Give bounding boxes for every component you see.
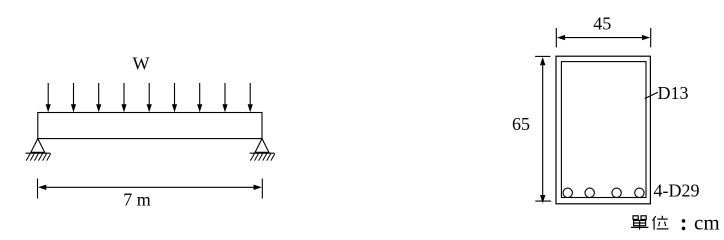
section outer rectangle: [556, 56, 650, 204]
stirrup inner rectangle: [561, 62, 646, 198]
span dimension left extension tick: [37, 179, 39, 199]
width dimension right extension tick: [650, 28, 652, 47]
svg-text:D13: D13: [658, 83, 689, 103]
distributed load arrow 8: [222, 83, 227, 112]
unit label CJK glyph 位: [653, 216, 669, 230]
distributed load arrow 6: [172, 83, 177, 112]
distributed load arrow 2: [71, 83, 76, 112]
rebar circle 4: [635, 188, 644, 197]
height dimension line with arrowheads: [540, 57, 545, 203]
svg-text:45: 45: [593, 14, 611, 34]
left support ground line: [26, 152, 51, 154]
left pin support triangle: [31, 139, 45, 153]
right support ground line: [250, 152, 275, 154]
width dimension left extension tick: [555, 28, 557, 47]
left support hatching: [26, 154, 51, 161]
height dimension bottom extension tick: [535, 200, 551, 202]
right pin support triangle: [255, 139, 269, 153]
distributed load arrow 4: [121, 83, 126, 112]
unit label full-width colon: [682, 219, 686, 230]
svg-text:7 m: 7 m: [123, 189, 151, 209]
rebar circle 2: [585, 188, 594, 197]
distributed load arrow 5: [147, 83, 152, 112]
stirrup leader line: [645, 92, 658, 98]
beam body rectangle: [38, 113, 262, 139]
svg-text:cm: cm: [694, 211, 720, 235]
span dimension line with arrowheads: [38, 185, 262, 190]
distributed load arrow 9: [248, 83, 253, 112]
distributed load arrow 3: [96, 83, 101, 112]
distributed load arrow 7: [197, 83, 202, 112]
unit label CJK glyph 單: [631, 216, 648, 230]
width dimension line with arrowheads: [557, 35, 650, 40]
span dimension right extension tick: [261, 179, 263, 199]
svg-text:W: W: [133, 54, 150, 74]
height dimension top extension tick: [535, 55, 550, 57]
distributed load arrow 1: [46, 83, 51, 112]
svg-text:4-D29: 4-D29: [654, 181, 700, 201]
rebar circle 1: [563, 188, 572, 197]
svg-text:65: 65: [512, 114, 530, 134]
right support hatching: [250, 154, 275, 161]
rebar circle 3: [612, 188, 621, 197]
